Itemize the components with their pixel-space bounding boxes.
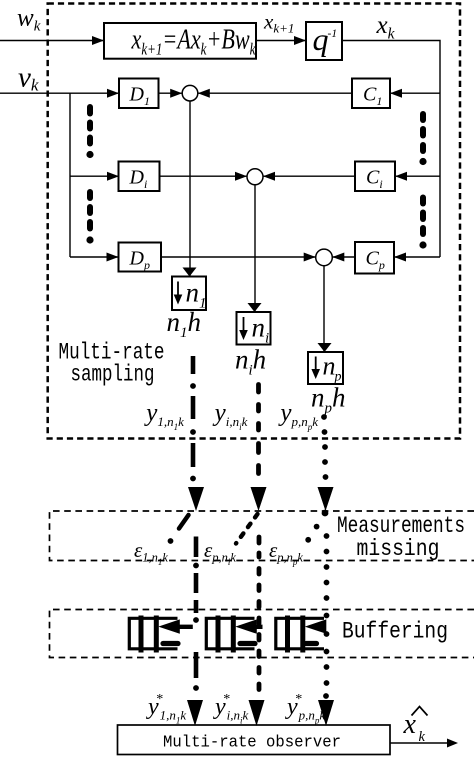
svg-text:Multi-rate observer: Multi-rate observer xyxy=(163,734,341,753)
svg-text:Buffering: Buffering xyxy=(342,619,448,645)
svg-text:missing: missing xyxy=(357,536,440,562)
svg-text:sampling: sampling xyxy=(71,361,155,387)
